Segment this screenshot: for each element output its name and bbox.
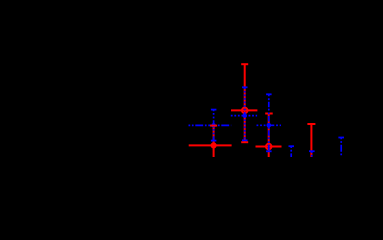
blue data point B2 y-error bar (dashed) <box>244 87 246 140</box>
blue data point B1 bottom cap <box>211 140 217 142</box>
blue data point B1 y-error bar (dashed) <box>213 110 215 141</box>
blue data point B3 top cap <box>266 93 272 95</box>
blue data point B2 top cap <box>242 86 248 88</box>
blue data point B2 marker <box>242 113 247 118</box>
blue data point B2 x-error bar (dashed) <box>231 115 257 117</box>
blue data point B2 bottom cap <box>242 139 248 141</box>
blue data point B3 bottom cap <box>266 150 272 152</box>
red data point R1 y-error bar <box>213 126 215 158</box>
red data point R4 top cap <box>307 123 315 125</box>
blue data point B6 top cap <box>338 137 344 139</box>
red data point R3 top cap <box>265 113 273 115</box>
blue data point B4 y-error bar (dashed) <box>311 151 313 158</box>
red data point R3 marker <box>266 144 272 150</box>
blue data point B5 top cap <box>289 145 295 147</box>
red data point R4 y-error bar <box>310 124 312 158</box>
red data point R2 y-error bar <box>244 64 246 142</box>
red data point R2 top cap <box>241 63 248 65</box>
blue data point B4 top cap <box>309 150 315 152</box>
blue data point B1 x-error bar (dashed) <box>189 124 232 126</box>
red data point R3 x-error bar <box>256 146 282 148</box>
red data point R2 x-error bar <box>231 109 257 111</box>
blue data point B1 top cap <box>211 109 217 111</box>
red data point R2 marker <box>242 108 248 114</box>
red data point R3 y-error bar <box>268 114 270 159</box>
blue data point B6 y-error bar (dashed) <box>340 138 342 159</box>
red data point R1 x-error bar <box>189 144 232 146</box>
red data point R1 marker <box>211 143 215 147</box>
blue data point B3 x-error bar (dashed) <box>257 124 282 126</box>
red data point R2 bottom cap <box>241 141 248 143</box>
blue data point B5 y-error bar (dashed) <box>290 146 292 158</box>
blue data point B3 y-error bar (dashed) <box>268 94 270 151</box>
blue data point B1 marker <box>211 123 216 128</box>
red data point R1 top cap (drawn over blue marker) <box>210 125 217 127</box>
blue data point B3 marker <box>267 123 272 128</box>
